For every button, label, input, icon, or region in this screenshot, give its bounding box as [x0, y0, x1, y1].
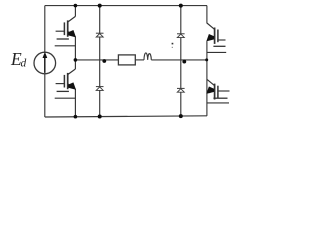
svg-text:d: d	[21, 57, 27, 69]
